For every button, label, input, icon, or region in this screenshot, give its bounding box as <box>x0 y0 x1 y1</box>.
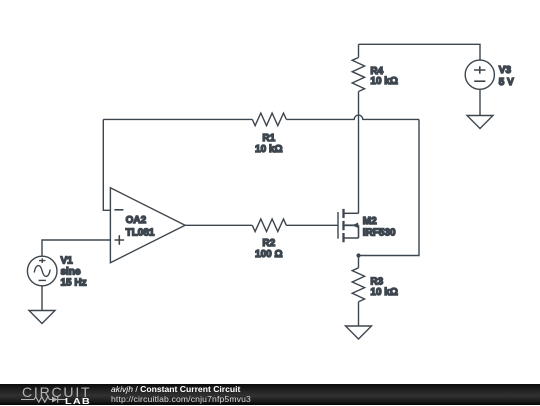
svg-text:OA2: OA2 <box>126 215 147 226</box>
voltage source V1 circle <box>27 256 57 286</box>
voltage source V1 sine symbol <box>34 266 50 277</box>
op-amp OA2 minus input symbol <box>114 209 123 211</box>
svg-text:V1: V1 <box>61 256 74 267</box>
transistor M2 channel bars <box>342 209 344 242</box>
svg-text:IRF530: IRF530 <box>363 228 396 239</box>
svg-text:R1: R1 <box>262 133 275 144</box>
svg-text:TL081: TL081 <box>126 228 155 239</box>
svg-text:R3: R3 <box>370 276 383 287</box>
svg-text:15 Hz: 15 Hz <box>61 277 87 288</box>
wire: V1 to ground <box>41 286 43 311</box>
wire: R1 right lead with hop over drain wire <box>286 115 419 119</box>
voltage source V3 minus symbol <box>474 80 485 82</box>
op-amp OA2 plus input symbol <box>115 235 125 245</box>
svg-text:100 Ω: 100 Ω <box>255 249 282 260</box>
wire: R3 to ground <box>358 302 360 326</box>
transistor M2 drain bar <box>344 212 359 214</box>
svg-text:10 kΩ: 10 kΩ <box>370 76 397 87</box>
voltage source V1 plus symbol <box>39 258 45 263</box>
footer text <box>111 385 251 404</box>
node: junction dot at M2 source / R3 / R1 net <box>356 253 360 257</box>
wire: right vertical from R1 net down to source node <box>359 119 420 255</box>
wire: M2 drain up to R4 (passes under hop) <box>358 92 360 214</box>
wire: R1 left lead from feedback corner <box>103 118 252 120</box>
wire: R4 top lead <box>358 44 360 57</box>
resistor R2 <box>252 219 286 232</box>
wire: R2 to M2 gate <box>286 224 338 226</box>
op-amp OA2 triangle <box>110 188 185 263</box>
resistor R3 <box>352 268 364 302</box>
wire: V3 to ground <box>479 89 481 115</box>
wire: top rail from R4 to V3 <box>359 44 481 60</box>
transistor M2 body arrow <box>345 224 359 226</box>
svg-text:M2: M2 <box>363 216 377 227</box>
resistor R1 <box>252 113 286 126</box>
ground below R3 <box>346 326 372 339</box>
voltage source V3 plus symbol <box>474 66 486 73</box>
voltage source V3 circle <box>465 60 494 89</box>
wire: op-amp output to R2 <box>185 224 252 226</box>
footer bar <box>0 384 540 405</box>
wire: feedback vertical to op-amp inverting input <box>103 119 110 210</box>
wire: V1 to op-amp non-inverting input <box>42 240 110 256</box>
resistor R4 <box>352 58 364 92</box>
ground below V3 <box>467 116 493 129</box>
svg-text:R2: R2 <box>262 238 275 249</box>
transistor M2 source bar <box>344 237 359 239</box>
ground below V1 <box>29 311 55 324</box>
svg-text:V3: V3 <box>499 65 512 76</box>
wire: M2 body to source <box>358 225 360 238</box>
CircuitLab logo <box>21 384 96 405</box>
transistor M2 gate bar <box>337 212 339 239</box>
svg-text:sine: sine <box>61 266 81 277</box>
wire: source node to R3 <box>358 256 360 268</box>
svg-text:10 kΩ: 10 kΩ <box>255 144 282 155</box>
svg-text:10 kΩ: 10 kΩ <box>370 287 397 298</box>
svg-text:5 V: 5 V <box>499 77 514 88</box>
voltage source V1 minus symbol <box>39 279 46 281</box>
